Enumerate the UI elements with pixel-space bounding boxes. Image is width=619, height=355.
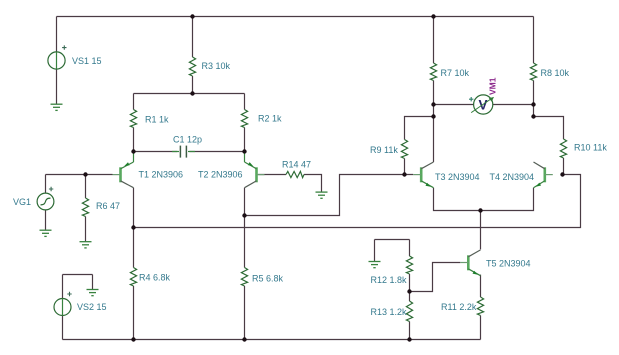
wire voltmeter left <box>434 104 474 106</box>
svg-text:T1 2N3906: T1 2N3906 <box>139 170 184 180</box>
resistor R9 <box>401 140 407 159</box>
wire R12 top lead <box>409 240 411 257</box>
svg-text:T2 2N3906: T2 2N3906 <box>198 170 243 180</box>
voltage source VS2 <box>54 299 71 316</box>
transistor T2 2N3906 base lead <box>257 174 265 176</box>
svg-text:R14 47: R14 47 <box>282 159 311 169</box>
voltage source VS1 <box>48 52 65 69</box>
junction emitters T3 T4 <box>478 208 482 212</box>
wire voltmeter right <box>493 104 534 106</box>
svg-text:T4 2N3904: T4 2N3904 <box>490 172 535 182</box>
transistor T1 2N3906 bar <box>119 167 122 182</box>
ground R14 <box>316 192 328 198</box>
resistor R5 <box>241 268 247 287</box>
svg-text:VG1: VG1 <box>13 197 31 207</box>
junction T2 emitter node <box>242 149 246 153</box>
wire R3 bottom lead <box>192 76 194 94</box>
transistor T2 2N3906 collector diagonal <box>245 181 257 188</box>
wire R10 bottom lead <box>563 158 565 175</box>
wire R7 top lead <box>433 17 435 64</box>
svg-text:VS2 15: VS2 15 <box>77 302 107 312</box>
wire R5 to bottom rail <box>244 286 246 340</box>
VM1 plus <box>469 97 473 101</box>
svg-text:R10 11k: R10 11k <box>574 142 607 152</box>
VG1 plus <box>49 187 53 191</box>
wire R4 to bottom rail <box>133 286 135 340</box>
wire R11 bottom lead <box>480 316 482 340</box>
wire R1-R2 node <box>134 93 245 95</box>
voltage source VG1 <box>37 193 54 210</box>
wire T3 emitter <box>434 188 481 211</box>
junction T1 emitter node <box>131 149 135 153</box>
wire T2 collector to T3 base <box>245 175 414 216</box>
ground R12 <box>369 262 381 268</box>
wire R1 bottom lead <box>133 128 135 152</box>
wire R13 top lead <box>409 292 411 302</box>
svg-text:T3 2N3904: T3 2N3904 <box>435 172 480 182</box>
transistor T4 2N3904 collector diagonal <box>534 162 545 169</box>
wire T1 base <box>46 174 113 176</box>
resistor R2 <box>241 110 247 128</box>
wire T1 emitter lead <box>133 152 135 163</box>
wire bottom rail <box>63 339 481 341</box>
svg-text:R4 6.8k: R4 6.8k <box>139 273 171 283</box>
transistor T2 2N3906 emitter arrow <box>248 162 253 166</box>
wire VG1 to ground <box>45 210 47 230</box>
wire T2 base to R14 <box>258 174 286 176</box>
capacitor C1 right lead stub <box>188 151 195 153</box>
wire VG1 top lead <box>45 175 47 194</box>
junction R8 voltmeter <box>531 102 535 106</box>
wire R7 bottom to T3 collector node <box>433 81 435 117</box>
wire R14 to ground <box>304 175 322 192</box>
junction T4 base node <box>560 172 564 176</box>
svg-text:R13 1.2k: R13 1.2k <box>371 307 408 317</box>
svg-text:R11 2.2k: R11 2.2k <box>441 302 477 312</box>
resistor R6 <box>82 198 88 217</box>
resistor R7 <box>430 63 436 81</box>
ground VS2 <box>87 290 99 296</box>
resistor R14 <box>286 171 304 177</box>
junction T1 collector tap <box>131 225 135 229</box>
transistor T5 2N3904 collector diagonal <box>468 250 480 257</box>
wire C1 right lead <box>190 151 245 153</box>
transistor T3 2N3904 bar <box>420 167 423 182</box>
resistor R8 <box>530 63 536 81</box>
resistor R4 <box>130 268 136 287</box>
wire top rail <box>57 16 534 18</box>
wire R1 top lead <box>133 94 135 110</box>
transistor T2 2N3906 bar <box>255 167 258 182</box>
transistor T1 2N3906 emitter arrow <box>124 162 129 166</box>
svg-text:R6 47: R6 47 <box>96 201 120 211</box>
wire R6 top lead <box>85 175 87 199</box>
transistor T5 2N3904 base lead <box>460 262 468 264</box>
wire R3 top lead <box>192 17 194 58</box>
junction R8 R10 node <box>531 114 535 118</box>
wire T5 base to divider <box>410 263 461 292</box>
junction T3 base node <box>402 172 406 176</box>
ground VG1 <box>40 230 52 236</box>
junction bottom rail R5 <box>242 337 246 341</box>
wire R8 bottom to T4 collector node <box>533 81 535 117</box>
junction bottom rail R4 <box>131 337 135 341</box>
resistor R11 <box>477 297 483 316</box>
transistor T3 2N3904 emitter arrow <box>426 183 431 187</box>
wire T3 collector <box>433 117 435 163</box>
wire C1 left lead <box>134 151 178 153</box>
svg-text:C1 12p: C1 12p <box>173 135 202 145</box>
wire VS2 bottom lead <box>62 316 64 340</box>
wire R8 top lead <box>533 17 535 64</box>
resistor R13 <box>406 301 412 322</box>
wire R6 to ground <box>85 217 87 242</box>
transistor T4 2N3904 emitter arrow <box>536 183 541 187</box>
resistor R3 <box>189 57 195 76</box>
voltmeter VM1 <box>471 95 494 114</box>
wire T2 emitter lead <box>244 152 246 163</box>
svg-text:R2 1k: R2 1k <box>258 113 282 123</box>
wire R12 ground lead <box>374 240 376 262</box>
wire T5 collector <box>480 211 482 250</box>
wire R2 top lead <box>244 94 246 110</box>
junction R7 voltmeter <box>431 102 435 106</box>
capacitor C1 left lead stub <box>172 151 179 153</box>
wire to R9 <box>405 117 434 140</box>
wire VS1 top lead <box>56 17 58 52</box>
transistor T5 2N3904 emitter arrow <box>473 271 478 275</box>
junction R7 R9 node <box>431 114 435 118</box>
wire T4 emitter <box>481 188 534 211</box>
svg-text:T5 2N3904: T5 2N3904 <box>486 258 531 268</box>
transistor T1 2N3906 base lead <box>113 174 121 176</box>
svg-text:VS1 15: VS1 15 <box>72 56 102 66</box>
wire T5 emitter to R11 <box>480 275 482 297</box>
svg-text:R1 1k: R1 1k <box>145 114 169 124</box>
transistor T4 2N3904 bar <box>543 167 546 182</box>
junction bottom rail R13 <box>407 337 411 341</box>
junction R12 R13 <box>407 289 411 293</box>
wire VS2 to ground <box>63 274 93 276</box>
wire T1 collector to R4 <box>133 188 135 268</box>
junction R6 node <box>83 172 87 176</box>
resistor R1 <box>130 110 136 128</box>
transistor T4 2N3904 emitter diagonal <box>534 181 545 188</box>
svg-text:R3 10k: R3 10k <box>202 61 231 71</box>
junction top rail R7 <box>431 14 435 18</box>
transistor T3 2N3904 base lead <box>413 174 421 176</box>
transistor T1 2N3906 collector diagonal <box>121 181 134 188</box>
svg-text:R8 10k: R8 10k <box>541 68 570 78</box>
VS2 plus <box>67 292 71 296</box>
ground VS1 <box>51 104 63 110</box>
wire VS1 to ground <box>56 69 58 104</box>
transistor T2 2N3906 emitter diagonal <box>245 162 257 169</box>
transistor T4 2N3904 base lead <box>545 174 553 176</box>
transistor T5 2N3904 bar <box>467 255 470 270</box>
junction top rail R3 <box>190 14 194 18</box>
transistor T5 2N3904 emitter diagonal <box>468 269 480 276</box>
wire R12 bottom lead <box>409 274 411 292</box>
wire R13 bottom lead <box>409 322 411 340</box>
junction R3 node <box>190 91 194 95</box>
resistor R12 <box>406 256 412 274</box>
wire T2 collector to R5 <box>244 188 246 268</box>
transistor T3 2N3904 emitter diagonal <box>421 181 433 188</box>
wire to R10 <box>534 117 564 140</box>
svg-text:R5 6.8k: R5 6.8k <box>252 273 284 283</box>
wire VS2 ground lead <box>92 275 94 290</box>
transistor T3 2N3904 collector diagonal <box>421 162 433 169</box>
wire VS2 top lead <box>62 275 64 299</box>
svg-text:R7 10k: R7 10k <box>441 68 470 78</box>
ground R6 <box>80 242 92 248</box>
transistor T1 2N3906 emitter diagonal <box>121 162 134 169</box>
wire R2 bottom lead <box>244 128 246 152</box>
wire T1 collector to T4 base <box>134 175 581 228</box>
VS1 plus <box>62 45 66 49</box>
wire R9 bottom lead <box>404 159 406 175</box>
svg-text:VM1: VM1 <box>488 77 498 95</box>
junction T2 collector tap <box>242 213 246 217</box>
svg-text:R9 11k: R9 11k <box>370 145 398 155</box>
svg-text:R12 1.8k: R12 1.8k <box>371 275 408 285</box>
resistor R10 <box>560 139 566 158</box>
capacitor C1 <box>180 146 186 158</box>
wire R12 top <box>375 239 410 241</box>
